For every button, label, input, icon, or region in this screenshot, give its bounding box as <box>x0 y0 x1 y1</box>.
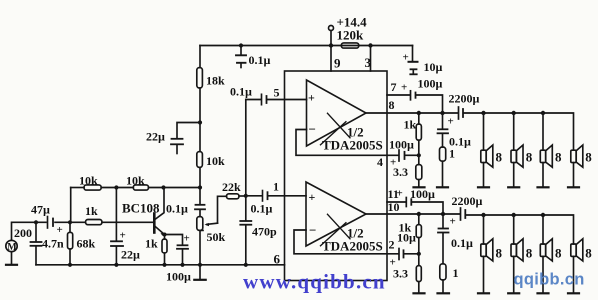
svg-text:8: 8 <box>555 246 562 261</box>
svg-text:+: + <box>308 91 315 105</box>
ground 3.3 U1a <box>414 186 425 188</box>
node 18k-22u junction <box>198 120 202 124</box>
svg-text:TDA2005S: TDA2005S <box>322 239 383 254</box>
ground rail left <box>36 264 285 266</box>
resistor 68k <box>69 222 71 232</box>
svg-text:5: 5 <box>274 86 280 100</box>
svg-text:0.1µ: 0.1µ <box>451 236 473 250</box>
svg-text:8: 8 <box>526 246 533 261</box>
svg-text:100µ: 100µ <box>166 270 191 284</box>
svg-text:8: 8 <box>496 246 503 261</box>
node speaker tap A2 <box>512 111 516 115</box>
svg-text:100µ: 100µ <box>410 187 435 201</box>
speaker LS2 <box>513 113 515 150</box>
svg-text:+: + <box>120 230 126 242</box>
resistor 1k U1a feedback <box>418 113 420 124</box>
svg-text:8: 8 <box>526 150 533 165</box>
svg-text:200: 200 <box>14 226 32 240</box>
node bias column junction <box>198 185 202 189</box>
wire mic top <box>12 222 47 240</box>
node 1k-gnd <box>162 263 166 267</box>
potentiometer 50k wiper arrow <box>207 223 218 224</box>
resistor 1k U1b feedback <box>418 214 420 225</box>
resistor 1k series input <box>70 221 86 223</box>
svg-text:1k: 1k <box>85 204 98 218</box>
svg-text:+: + <box>397 188 403 200</box>
capacitor 47u <box>47 217 49 229</box>
node speaker tap B3 <box>541 213 545 217</box>
svg-text:8: 8 <box>585 246 592 261</box>
node 68k-gnd <box>68 263 72 267</box>
svg-text:−: − <box>309 122 316 137</box>
svg-text:+: + <box>403 52 409 64</box>
svg-text:+: + <box>450 216 456 228</box>
node 120k right junction <box>368 43 372 47</box>
capacitor 2200u U1b <box>460 208 462 220</box>
svg-text:9: 9 <box>334 56 341 71</box>
svg-text:+: + <box>401 82 407 94</box>
speaker LS3 <box>542 113 544 150</box>
op-amp U1b triangle <box>306 182 366 246</box>
node input-4.7n junction <box>34 220 38 224</box>
pin 3 wire <box>370 46 372 72</box>
svg-text:10k: 10k <box>126 174 145 188</box>
pin 7 wire and capacitor 100u bootstrap <box>387 94 410 96</box>
svg-text:3: 3 <box>365 55 372 70</box>
ground zobel U1b <box>438 292 450 294</box>
speaker LS4 <box>571 150 576 162</box>
svg-text:1k: 1k <box>399 221 412 235</box>
transistor BC108 base bar <box>153 214 156 233</box>
wire U1a output <box>366 112 458 114</box>
wire input riser to bias row <box>70 188 72 223</box>
svg-text:qqibb.cn: qqibb.cn <box>514 271 585 289</box>
svg-text:1: 1 <box>273 180 279 194</box>
node speaker tap B2 <box>512 213 516 217</box>
node output-1k <box>417 111 421 115</box>
node input-68k junction <box>68 220 72 224</box>
svg-text:4.7n: 4.7n <box>42 237 64 251</box>
svg-text:100µ: 100µ <box>418 77 443 91</box>
node input node junction <box>244 194 248 198</box>
capacitor 22u upper <box>177 123 200 138</box>
node feedback junction <box>417 153 421 157</box>
node 0.1u decoupling junction <box>239 43 243 47</box>
svg-text:0.1µ: 0.1µ <box>251 202 273 216</box>
capacitor 100u emitter bypass <box>165 235 183 245</box>
wire mic bottom stub <box>11 252 13 264</box>
node collector junction <box>161 185 165 189</box>
wire U1b output <box>366 213 460 215</box>
svg-text:2: 2 <box>389 238 395 252</box>
svg-text:10µ: 10µ <box>424 60 443 74</box>
resistor 120k <box>341 43 359 48</box>
svg-text:22k: 22k <box>222 180 241 194</box>
resistor 1 zobel U1a <box>440 147 446 161</box>
svg-text:120k: 120k <box>337 28 365 43</box>
svg-text:8: 8 <box>555 150 562 165</box>
svg-text:50k: 50k <box>207 230 226 244</box>
node output-zobel <box>440 111 444 115</box>
ground mic <box>6 264 17 266</box>
svg-text:1k: 1k <box>404 118 417 132</box>
resistor 3.3 U1b <box>418 254 420 266</box>
svg-text:0.1µ: 0.1µ <box>230 85 252 99</box>
ground symbol center <box>199 265 201 279</box>
svg-text:10k: 10k <box>206 154 225 168</box>
wire U1b feedback <box>294 230 398 254</box>
capacitor 10u decoupling <box>412 46 414 61</box>
transistor BC108 emitter with arrow <box>156 227 164 234</box>
speaker LS5 <box>483 215 485 244</box>
capacitor 0.1u pin1 <box>246 195 262 197</box>
node 50k-gnd <box>198 263 202 267</box>
resistor 1 zobel U1b <box>440 264 446 280</box>
svg-text:3.3: 3.3 <box>393 267 408 281</box>
node 22u-gnd <box>114 263 118 267</box>
capacitor 2200u U1a <box>458 107 460 119</box>
svg-text:10k: 10k <box>79 174 98 188</box>
svg-text:47µ: 47µ <box>31 203 50 217</box>
microphone MIC <box>6 240 17 251</box>
ground zobel U1a <box>437 186 448 188</box>
svg-text:+: + <box>448 116 454 128</box>
wire U1a feedback <box>296 130 398 156</box>
resistor 3.3 U1a <box>418 155 420 164</box>
node 100u-gnd <box>180 263 184 267</box>
svg-text:2200µ: 2200µ <box>449 92 480 106</box>
node supply junction <box>329 43 333 47</box>
capacitor 0.1u column <box>199 188 201 204</box>
node bias-22u junction <box>114 185 118 189</box>
op-amp U1b cross mark <box>321 214 351 246</box>
op-amp U1a triangle <box>307 80 367 146</box>
node speaker tap A1 <box>481 111 485 115</box>
svg-text:100µ: 100µ <box>389 138 414 152</box>
svg-text:22µ: 22µ <box>146 130 165 144</box>
node feedback junction U1b <box>417 252 421 256</box>
IC U1 TDA2005S package box <box>285 71 388 281</box>
capacitor 0.1u zobel U1b <box>442 214 444 228</box>
capacitor 22u base bypass <box>115 188 117 241</box>
pin 9 wire <box>330 46 332 72</box>
svg-text:6: 6 <box>274 252 281 267</box>
wire input column <box>245 100 247 221</box>
node 470p-gnd <box>244 263 248 267</box>
transistor BC108 collector <box>156 188 165 220</box>
node speaker tap A3 <box>541 111 545 115</box>
svg-text:22µ: 22µ <box>121 248 140 262</box>
svg-text:18k: 18k <box>206 74 225 88</box>
svg-text:1k: 1k <box>145 237 158 251</box>
capacitor 0.1u decoupling <box>240 46 242 55</box>
resistor 18k <box>199 46 201 68</box>
speaker LS7 <box>542 215 544 244</box>
svg-text:−: − <box>309 223 316 238</box>
svg-text:3.3: 3.3 <box>393 165 408 179</box>
svg-text:TDA2005S: TDA2005S <box>322 138 383 153</box>
resistor 1k emitter <box>164 235 166 240</box>
svg-text:0.1µ: 0.1µ <box>166 202 188 216</box>
resistor 10k middle <box>199 123 201 152</box>
svg-text:+: + <box>184 233 190 245</box>
svg-text:0.1µ: 0.1µ <box>249 53 271 67</box>
speaker LS6 <box>513 215 515 244</box>
resistor 10k bias left <box>71 187 84 189</box>
svg-text:8: 8 <box>585 150 592 165</box>
capacitor 0.1u pin5 <box>246 99 261 101</box>
svg-text:2200µ: 2200µ <box>452 194 483 208</box>
svg-text:7: 7 <box>391 80 397 94</box>
terminal +14.4 <box>329 26 334 31</box>
ground 3.3 U1b <box>414 292 425 294</box>
svg-text:8: 8 <box>496 150 503 165</box>
speaker LS1 <box>483 113 485 150</box>
svg-text:1: 1 <box>453 266 459 280</box>
resistor 10k bias right <box>133 185 148 190</box>
node emitter junction <box>163 233 167 237</box>
svg-text:4: 4 <box>377 155 383 169</box>
svg-text:1: 1 <box>449 147 455 161</box>
svg-text:+: + <box>309 190 316 204</box>
node speaker tap B1 <box>481 213 485 217</box>
capacitor 100u pin4 <box>398 150 400 161</box>
op-amp U1a cross mark <box>321 113 351 145</box>
svg-text:+: + <box>57 224 63 236</box>
resistor 22k <box>227 194 240 199</box>
node output-zobel U1b <box>441 212 445 216</box>
capacitor 10u pin2 <box>398 249 400 260</box>
svg-text:www.qqibb.cn: www.qqibb.cn <box>243 270 386 294</box>
svg-text:470p: 470p <box>252 225 277 239</box>
wire top rail <box>200 45 413 47</box>
svg-text:68k: 68k <box>77 237 96 251</box>
capacitor 0.1u zobel U1a <box>442 113 444 128</box>
svg-text:10: 10 <box>388 200 400 214</box>
potentiometer 50k <box>197 217 203 231</box>
capacitor 470p <box>240 220 251 222</box>
capacitor 4.7n <box>35 222 37 241</box>
node output-1k U1b <box>417 212 421 216</box>
pin 11 wire and capacitor 100u bootstrap <box>387 201 405 203</box>
svg-text:8: 8 <box>389 98 395 112</box>
speaker LS8 <box>571 244 576 256</box>
